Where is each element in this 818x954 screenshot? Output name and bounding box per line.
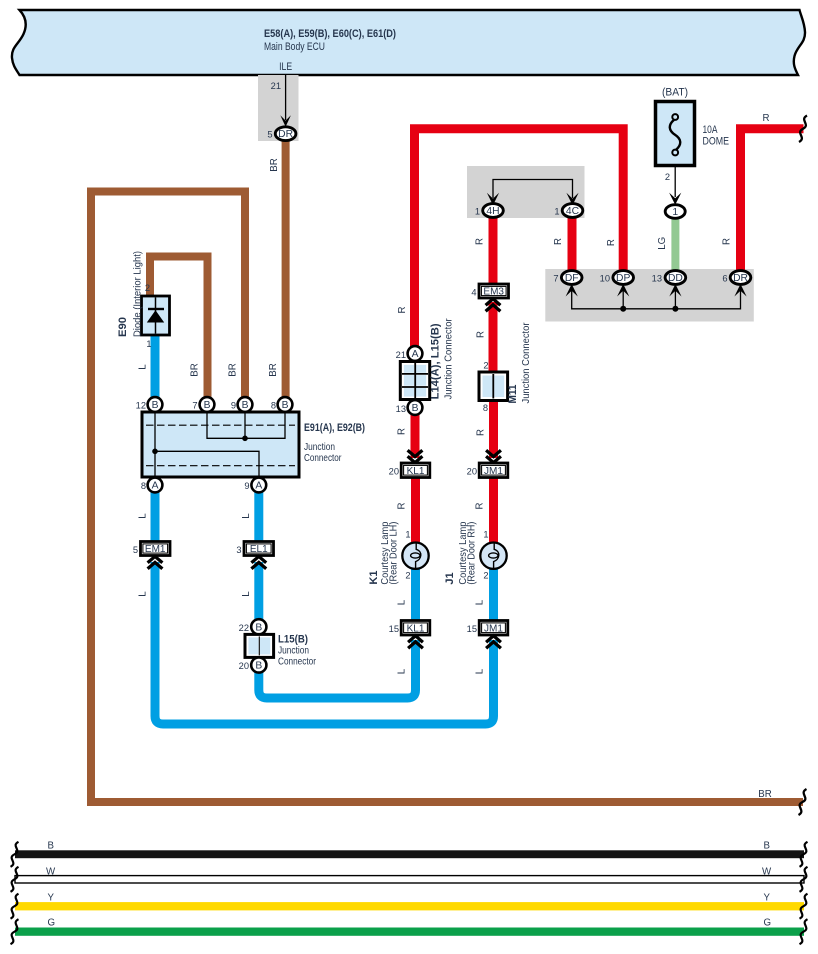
wire R from EM3 down to M11 pin 2: [489, 302, 498, 373]
svg-text:20: 20: [239, 661, 249, 671]
connector EM1 (pin 5): [141, 542, 171, 556]
svg-text:A: A: [152, 481, 159, 492]
svg-text:Connector: Connector: [304, 452, 342, 464]
svg-text:BR: BR: [268, 363, 279, 376]
svg-text:3: 3: [236, 545, 241, 555]
svg-text:LG: LG: [657, 237, 668, 250]
svg-text:EM1: EM1: [145, 544, 166, 555]
svg-text:R: R: [475, 503, 486, 510]
svg-text:9: 9: [244, 481, 249, 491]
connector pin 8B of E91: [278, 397, 293, 412]
svg-text:Y: Y: [764, 893, 771, 904]
svg-text:B: B: [412, 403, 419, 414]
svg-text:1: 1: [146, 339, 151, 349]
svg-text:7: 7: [553, 274, 558, 284]
connector KL1 (pin 15): [401, 621, 430, 636]
arrow into 4C: [566, 193, 578, 206]
svg-text:L: L: [475, 668, 486, 674]
svg-text:15: 15: [389, 624, 399, 634]
svg-text:B: B: [282, 400, 289, 411]
connector 4H (pin 1): [483, 204, 504, 218]
wire internal bus linking DF DP DD DR inside gray bar: [572, 290, 741, 309]
wire BR big left loop: vertical, top horizontal, down to E91 pin 9B: [91, 192, 245, 803]
connector pin 9B of E91: [238, 397, 253, 412]
svg-text:EL1: EL1: [250, 544, 268, 555]
wire L blue from diode E90 pin 1 to E91 pin 12B: [151, 335, 160, 398]
diode E90 (Interior Light): [142, 296, 170, 335]
node gray bar for connectors DF DP DD DR: [545, 269, 754, 322]
connector 4C (pin 1): [562, 204, 583, 218]
chevrons below JM1(15): [486, 636, 501, 648]
svg-text:5: 5: [133, 545, 138, 555]
svg-text:L: L: [397, 599, 408, 605]
wire L from E91 pin 9A down to EL1: [254, 490, 263, 543]
svg-text:E58(A), E59(B), E60(C), E61(D): E58(A), E59(B), E60(C), E61(D): [264, 28, 396, 40]
svg-text:B: B: [48, 841, 54, 852]
svg-text:22: 22: [239, 623, 249, 633]
svg-text:DF: DF: [565, 273, 579, 284]
svg-text:BR: BR: [228, 363, 239, 376]
junction connector M11 box: [479, 372, 508, 401]
chevrons above KL1(20): [408, 450, 423, 462]
svg-text:(Rear Door RH): (Rear Door RH): [467, 522, 478, 585]
wire L from EM1 down, corner, right to JM1 chain: [155, 562, 494, 724]
chevrons below EL1: [251, 556, 266, 568]
connector pin 7B of E91: [200, 397, 215, 412]
wire BR from diode E90 pin 2 loop to E91 pin 7B: [150, 257, 208, 399]
svg-text:KL1: KL1: [407, 466, 425, 477]
connector DR (ECU pin 5): [275, 127, 296, 141]
svg-text:4C: 4C: [566, 206, 580, 217]
svg-text:BR: BR: [758, 789, 771, 800]
break symbols band Y: [11, 894, 19, 919]
svg-text:2: 2: [483, 571, 488, 581]
node gray strip below ECU pin 21: [258, 75, 299, 141]
svg-text:8: 8: [271, 401, 276, 411]
connector A21 of L14: [408, 346, 423, 361]
connector KL1 (pin 20): [401, 463, 430, 478]
arrow into 4H: [487, 193, 499, 206]
wire ILE from ECU pin 21 to connector DR: [285, 75, 287, 120]
svg-text:A: A: [255, 481, 262, 492]
svg-text:R: R: [397, 307, 408, 314]
svg-text:1: 1: [554, 207, 559, 217]
svg-text:L: L: [138, 591, 149, 597]
svg-text:KL1: KL1: [407, 623, 425, 634]
wire LG green from fuse connector 1 to DD: [671, 217, 679, 272]
svg-text:20: 20: [389, 467, 399, 477]
connector B13 of L14: [408, 400, 423, 415]
svg-text:1: 1: [475, 207, 480, 217]
svg-text:2: 2: [405, 571, 410, 581]
svg-text:2: 2: [145, 283, 150, 293]
arrow up into DD: [669, 284, 681, 297]
break symbol at right end of R wire: [799, 116, 807, 143]
svg-text:(Rear Door LH): (Rear Door LH): [389, 522, 400, 585]
junction dot 9B: [242, 436, 248, 442]
svg-text:R: R: [553, 238, 564, 245]
svg-text:4H: 4H: [486, 206, 499, 217]
chevrons below KL1(15): [408, 636, 423, 648]
svg-text:L14(A), L15(B): L14(A), L15(B): [430, 323, 442, 399]
svg-text:JM1: JM1: [484, 623, 503, 634]
dashed separator lines inside E91: [146, 424, 295, 426]
svg-text:Junction Connector: Junction Connector: [444, 318, 455, 400]
svg-text:6: 6: [722, 274, 727, 284]
svg-text:R: R: [397, 428, 408, 435]
junction dot at DP bus: [620, 306, 626, 312]
svg-text:EM3: EM3: [483, 287, 504, 298]
svg-text:21: 21: [396, 350, 406, 360]
junction dot on 12B line: [152, 449, 158, 455]
wire L from L15(B) pin 20B down, corner, right to KL1 chain: [259, 640, 416, 698]
svg-text:L: L: [241, 591, 252, 597]
wire band Y yellow: [15, 902, 804, 910]
svg-text:1: 1: [672, 207, 678, 218]
svg-text:L: L: [138, 513, 149, 519]
svg-text:BR: BR: [190, 363, 201, 376]
connector DP (pin 10): [613, 271, 634, 285]
wire R from 4C oval down to DF: [568, 216, 577, 272]
svg-text:B: B: [152, 400, 159, 411]
wire R from DR up and right to break: [741, 129, 804, 272]
junction connector L14(A) L15(B) box: [400, 362, 429, 400]
wire L from EL1 down to L15(B) pin 22B: [254, 562, 263, 620]
break symbols band G: [11, 919, 19, 944]
chevrons below EM1: [148, 556, 163, 568]
connector DD (pin 13): [665, 271, 686, 285]
svg-text:DR: DR: [278, 129, 293, 140]
svg-text:A: A: [412, 349, 419, 360]
svg-text:G: G: [764, 918, 772, 929]
svg-text:DD: DD: [668, 273, 683, 284]
fuse element symbol: [672, 114, 678, 120]
junction dot at DD bus: [672, 306, 678, 312]
svg-text:R: R: [722, 238, 733, 245]
break symbol at right end of BR wire: [799, 789, 807, 815]
svg-text:E91(A), E92(B): E91(A), E92(B): [304, 422, 365, 434]
wire R from M11 pin 8 down to JM1(20): [489, 400, 498, 458]
node Main Body ECU banner: [12, 10, 805, 75]
wire L from lamp K1 pin 2 to KL1(15): [411, 567, 420, 622]
connector pin 12B of E91: [148, 397, 163, 412]
svg-text:B: B: [204, 400, 211, 411]
svg-text:JM1: JM1: [484, 466, 503, 477]
wire R red top loop from A21 chain up over to DP: [415, 129, 624, 350]
svg-text:G: G: [48, 918, 56, 929]
svg-text:20: 20: [467, 467, 477, 477]
svg-text:K1: K1: [368, 571, 380, 585]
svg-text:DP: DP: [616, 273, 630, 284]
internal wire 12B-line to 9A: [155, 451, 259, 476]
svg-text:B: B: [255, 622, 262, 633]
svg-text:7: 7: [192, 401, 197, 411]
wire R from L14 pin 13B down to KL1(20): [411, 412, 420, 458]
svg-text:L: L: [397, 668, 408, 674]
wire internal link between 4H and 4C inside gray box: [493, 180, 573, 199]
svg-text:1: 1: [483, 530, 488, 540]
courtesy lamp K1 (Rear Door LH): [402, 543, 428, 569]
connector EL1 (pin 3): [244, 542, 274, 556]
svg-text:5: 5: [267, 130, 272, 140]
svg-text:Y: Y: [48, 893, 55, 904]
arrow up into DP: [617, 284, 629, 297]
svg-text:J1: J1: [444, 572, 456, 584]
svg-text:Junction Connector: Junction Connector: [521, 322, 532, 404]
svg-text:R: R: [476, 429, 487, 436]
internal wire 7B 9B 8B bus: [207, 413, 285, 438]
svg-text:R: R: [476, 331, 487, 338]
node gray box for connectors 4H 4C: [467, 166, 585, 218]
svg-text:Connector: Connector: [278, 656, 316, 668]
svg-text:9: 9: [231, 401, 236, 411]
break symbols band W: [11, 867, 19, 892]
svg-text:21: 21: [271, 81, 281, 91]
svg-text:L: L: [138, 364, 149, 370]
connector DF (pin 7): [561, 271, 582, 285]
connector JM1 (pin 15): [479, 621, 508, 636]
svg-text:4: 4: [471, 288, 476, 298]
svg-text:10: 10: [600, 274, 610, 284]
svg-text:13: 13: [396, 404, 406, 414]
chevrons below EM3: [486, 299, 501, 311]
svg-text:Diode (Interior Light): Diode (Interior Light): [132, 251, 143, 337]
svg-text:L: L: [475, 599, 486, 605]
svg-text:R: R: [763, 113, 770, 124]
connector DR (pin 6): [730, 271, 751, 285]
svg-text:15: 15: [467, 624, 477, 634]
svg-text:R: R: [606, 239, 617, 246]
wire band G green: [15, 928, 804, 936]
svg-text:L: L: [241, 513, 252, 519]
connector 1 oval: [665, 205, 685, 219]
svg-text:8: 8: [483, 403, 488, 413]
svg-text:DR: DR: [733, 273, 748, 284]
wire L from lamp J1 pin 2 to JM1(15): [489, 567, 498, 622]
connector JM1 (pin 20): [479, 463, 508, 478]
break symbols band B: [11, 842, 19, 867]
wire from fuse to connector 1: [674, 165, 676, 197]
arrow into connector 1: [669, 193, 681, 205]
chevrons above JM1(20): [486, 450, 501, 462]
svg-text:(BAT): (BAT): [662, 87, 688, 99]
wire R from JM1(20) to lamp J1 pin 1: [489, 478, 498, 546]
internal wire 12B to 8A: [154, 413, 156, 476]
connector EM3 (pin 4): [479, 284, 509, 298]
connector pin 8A of E91: [148, 478, 163, 493]
courtesy lamp J1 (Rear Door RH): [480, 543, 506, 569]
svg-text:M11: M11: [507, 385, 519, 404]
svg-text:2: 2: [665, 172, 670, 182]
wire L from E91 pin 8A down to EM1: [151, 490, 160, 543]
svg-text:B: B: [242, 400, 249, 411]
wire R from 4H oval down to EM3: [489, 216, 498, 285]
svg-text:B: B: [764, 841, 770, 852]
svg-text:2: 2: [483, 361, 488, 371]
junction connector L15(B) box: [245, 634, 274, 657]
arrow up into DR: [734, 284, 746, 297]
junction connector E91(A) E92(B) box: [142, 412, 299, 477]
svg-text:W: W: [762, 867, 772, 878]
svg-text:R: R: [397, 503, 408, 510]
junction connector L15(B) pin 20B: [251, 657, 266, 672]
svg-text:W: W: [46, 867, 56, 878]
svg-text:1: 1: [405, 530, 410, 540]
wire band B black: [15, 850, 804, 858]
svg-text:13: 13: [652, 274, 662, 284]
fuse 10A DOME box: [656, 102, 695, 166]
connector pin 9A of E91: [251, 478, 266, 493]
svg-text:R: R: [475, 238, 486, 245]
svg-text:DOME: DOME: [703, 136, 730, 148]
arrow up into DF: [566, 284, 578, 297]
wire BR bottom horizontal to right break: [87, 798, 803, 806]
svg-text:Main Body ECU: Main Body ECU: [264, 41, 325, 53]
svg-text:ILE: ILE: [279, 61, 292, 73]
svg-text:B: B: [255, 661, 262, 672]
wire BR brown from DR connector down to E91 pin 8B: [282, 140, 290, 398]
svg-text:12: 12: [136, 401, 146, 411]
svg-text:E90: E90: [117, 317, 129, 337]
wire band W white: [15, 876, 804, 883]
svg-text:BR: BR: [269, 158, 280, 171]
wire R from KL1(20) to lamp K1 pin 1: [411, 478, 420, 546]
arrow into DR: [280, 115, 291, 127]
svg-text:8: 8: [141, 481, 146, 491]
svg-text:10A: 10A: [703, 124, 719, 136]
junction connector L15(B) pin 22B: [251, 619, 266, 634]
